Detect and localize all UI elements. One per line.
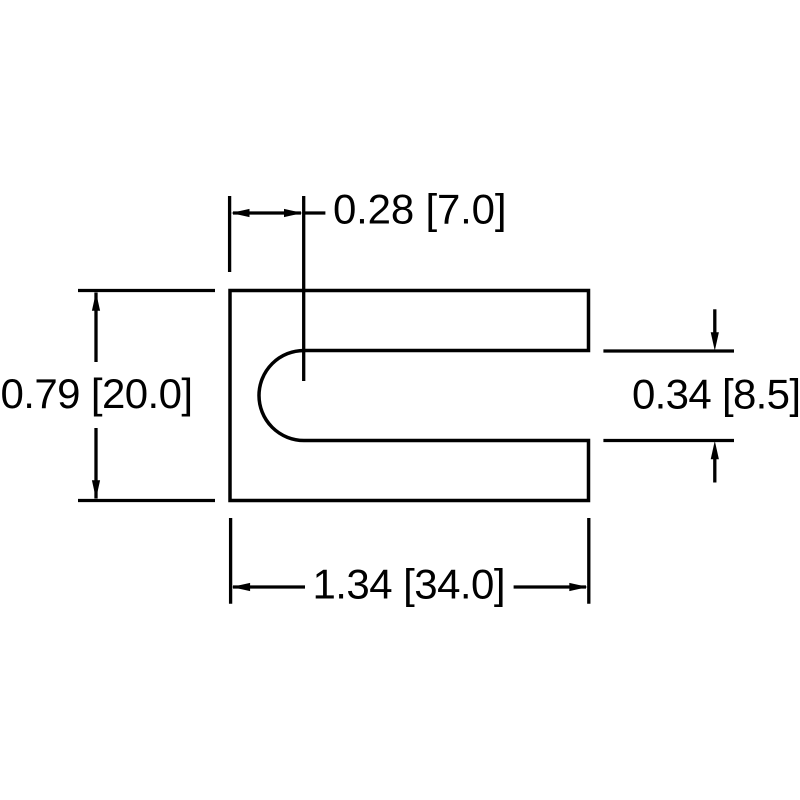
upper arrow shaft xyxy=(713,309,716,334)
dimension 0.28 [7.0] xyxy=(230,196,326,381)
svg-text:0.79 [20.0]: 0.79 [20.0] xyxy=(1,370,194,417)
svg-text:0.34 [8.5]: 0.34 [8.5] xyxy=(632,371,800,418)
dimension 0.34 [8.5] xyxy=(603,309,734,482)
arrowhead left of 0.28 dim xyxy=(231,209,250,217)
extension line at part top edge xyxy=(78,289,215,292)
dimension line right segment xyxy=(514,585,586,588)
arrowhead bottom of 0.79 dim xyxy=(92,480,100,499)
dimension 1.34 [34.0] xyxy=(231,518,589,604)
extension line at slot bottom edge xyxy=(603,439,734,442)
arrowhead left of 1.34 dim xyxy=(232,583,251,591)
part outline (U-shaped slotted block) xyxy=(230,291,589,501)
arrowhead right of 1.34 dim xyxy=(569,583,588,591)
dimension line left segment xyxy=(233,585,305,588)
dimension line lower segment xyxy=(94,428,97,499)
svg-text:0.28 [7.0]: 0.28 [7.0] xyxy=(333,186,507,233)
extension line at part bottom edge xyxy=(78,499,215,502)
extension line below part right edge xyxy=(587,518,590,604)
svg-text:1.34 [34.0]: 1.34 [34.0] xyxy=(313,561,506,608)
extension line at part left edge xyxy=(228,196,231,272)
arrowhead pointing down at slot top xyxy=(711,332,719,351)
lower arrow shaft xyxy=(713,457,716,483)
dimension line tail xyxy=(304,211,326,214)
extension line below part left edge xyxy=(229,518,232,604)
dimension line upper segment xyxy=(94,293,97,363)
arrowhead top of 0.79 dim xyxy=(92,292,100,311)
extension line at slot arc center xyxy=(302,196,305,381)
dimension line xyxy=(233,211,301,214)
arrowhead pointing up at slot bottom xyxy=(711,441,719,460)
extension line at slot top edge xyxy=(603,349,734,352)
arrowhead right of 0.28 dim xyxy=(284,209,303,217)
dimension 0.79 [20.0] xyxy=(78,291,215,501)
